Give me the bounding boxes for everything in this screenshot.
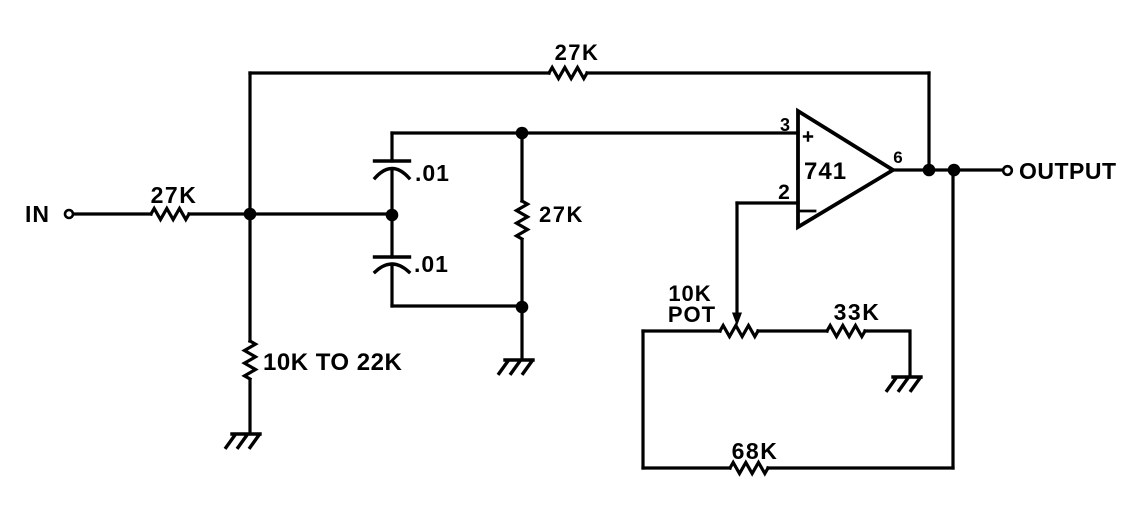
- wire cap column top lead (top rail corner to C1): [390, 133, 393, 161]
- node OUTPUT terminal: [1003, 166, 1012, 175]
- svg-text:POT: POT: [668, 302, 716, 327]
- ground G2: [499, 360, 533, 374]
- wire bottom rail right segment: [768, 466, 953, 469]
- svg-text:.01: .01: [414, 251, 449, 277]
- wire pot to R6 33K: [758, 329, 827, 332]
- wire C2 bottom lead to bottom rail corner: [390, 264, 393, 306]
- wire IN terminal to R1: [74, 212, 152, 215]
- resistor R4 10K TO 22K (vertical): [245, 341, 256, 379]
- svg-text:27K: 27K: [539, 202, 584, 227]
- wire pot rail left segment: [643, 329, 720, 332]
- capacitor C2 .01 (curved plate): [375, 264, 409, 272]
- op-amp minus input mark: [800, 210, 815, 213]
- wire twin-T top rail to op-amp pin 3: [392, 131, 798, 134]
- potentiometer R5 10K POT: [720, 326, 758, 337]
- svg-text:2: 2: [778, 181, 790, 204]
- capacitor C2 .01 (top plate): [375, 255, 410, 258]
- svg-text:6: 6: [893, 148, 902, 167]
- resistor R6 33K: [827, 326, 865, 337]
- wire pin 2 down to pot wiper: [735, 203, 738, 313]
- op-amp plus input mark: [804, 133, 812, 141]
- wire R4 to ground: [248, 380, 251, 433]
- ground G3: [887, 377, 921, 391]
- resistor R3 27K (vertical): [517, 201, 528, 239]
- svg-text:10K TO 22K: 10K TO 22K: [263, 349, 402, 376]
- junction node C (top of R3): [516, 127, 529, 140]
- wire top feedback rail left segment: [250, 71, 549, 74]
- junction node A (input junction): [244, 208, 257, 221]
- capacitor C1 .01 (top plate): [375, 159, 410, 162]
- wire node F down to bottom rail: [951, 170, 954, 468]
- wire R1 to node A: [189, 212, 250, 215]
- wire node A down to R4: [248, 214, 251, 341]
- wire feedback right vertical down to output node: [927, 73, 930, 170]
- wire node D to ground: [520, 307, 523, 359]
- capacitor C1 .01 (curved plate): [375, 169, 409, 179]
- resistor R1 27K (input): [151, 209, 189, 220]
- wire op-amp output to OUTPUT terminal: [893, 168, 1003, 171]
- junction node E (feedback tap on output): [923, 164, 936, 177]
- svg-text:IN: IN: [25, 201, 50, 227]
- svg-text:741: 741: [804, 158, 847, 185]
- svg-text:33K: 33K: [834, 299, 881, 325]
- svg-text:27K: 27K: [555, 40, 600, 65]
- wire R3 bottom lead: [520, 240, 523, 307]
- resistor R2 27K (feedback): [549, 68, 587, 79]
- resistor R7 68K: [730, 463, 768, 474]
- wire node A to node B (cap junction): [250, 212, 392, 215]
- svg-text:27K: 27K: [151, 182, 198, 208]
- junction node D (bottom of R3): [516, 301, 529, 314]
- svg-text:68K: 68K: [732, 438, 779, 464]
- junction node F (68K tap on output): [948, 164, 961, 177]
- pot wiper arrow: [732, 313, 742, 327]
- wire twin-T bottom rail: [392, 304, 522, 307]
- wire R6 to ground corner: [865, 331, 910, 376]
- wire feedback left vertical (node A up to top rail): [248, 73, 251, 214]
- svg-text:OUTPUT: OUTPUT: [1019, 158, 1117, 184]
- wire R3 top lead: [520, 133, 523, 201]
- op-amp U1 741 triangle: [798, 111, 893, 227]
- svg-text:3: 3: [780, 115, 790, 135]
- wire top feedback rail right segment: [587, 71, 929, 74]
- ground G1: [226, 434, 260, 448]
- wire C1 to C2 through node B: [390, 169, 393, 257]
- node IN terminal: [65, 210, 73, 218]
- wire op-amp pin 2 stub: [737, 201, 798, 204]
- junction node B (between capacitors): [386, 209, 399, 222]
- wire bottom rail left segment: [643, 466, 730, 469]
- svg-text:.01: .01: [415, 160, 450, 186]
- wire pot left leg down: [641, 331, 644, 468]
